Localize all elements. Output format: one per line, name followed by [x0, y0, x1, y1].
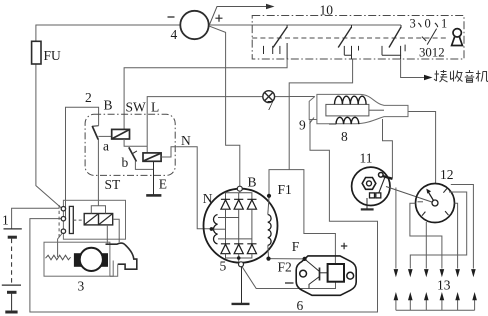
arrow to feed from ammeter plus — [210, 7, 269, 25]
wire ignition switch sw1 output to SW terminal of relay box — [124, 59, 287, 129]
alternator 5 body — [204, 189, 278, 263]
wire ammeter to ignition switch — [209, 24, 401, 26]
battery 1 — [2, 229, 22, 312]
spark plug bus and up arrows — [396, 298, 475, 310]
svg-text:9: 9 — [299, 118, 306, 133]
breaker arm — [383, 176, 393, 179]
wire L terminal to lamp 7 — [147, 97, 263, 153]
minus sign at regulator — [285, 282, 294, 284]
relay coil a — [112, 129, 130, 139]
svg-text:3: 3 — [410, 16, 416, 30]
field winding — [268, 215, 271, 246]
relay coil b — [143, 153, 161, 161]
ground at E — [146, 161, 161, 195]
coil primary winding — [335, 96, 367, 104]
switch contact group 2 — [338, 25, 358, 59]
switch b — [129, 147, 137, 161]
alternator bottom terminal — [239, 262, 244, 267]
svg-text:B: B — [248, 175, 257, 190]
wire relay coil b to N terminal — [161, 147, 176, 157]
wire F2 to regulator F — [269, 258, 305, 260]
svg-text:2: 2 — [85, 90, 92, 105]
svg-text:3: 3 — [78, 279, 85, 294]
wire ignition switch sw2 output to supply node — [289, 59, 352, 170]
接 — [434, 71, 439, 82]
key symbol in box 10 — [452, 29, 463, 46]
svg-text:11: 11 — [360, 151, 373, 166]
starter drive housing bell — [106, 243, 137, 269]
diodes bottom row — [221, 244, 257, 254]
wire fuse down to starter terminal 1 — [36, 64, 61, 208]
svg-text:0: 0 — [425, 16, 431, 30]
distributor center — [432, 200, 438, 206]
wire alternator minus to regulator minus — [242, 266, 336, 289]
wire node to regulator plus and F1 — [269, 170, 335, 264]
ignition switch box 10 — [252, 16, 464, 60]
transistor in regulator — [306, 260, 328, 289]
coil secondary winding — [336, 117, 359, 124]
svg-text:6: 6 — [297, 298, 304, 313]
wire supply node to resistor 9 — [289, 96, 315, 98]
label 9 pointer — [310, 118, 315, 124]
switch contact group 1 — [264, 25, 288, 59]
svg-text:7: 7 — [267, 98, 274, 113]
spark plug wire arrows 13 down — [394, 269, 476, 277]
svg-text:B: B — [104, 97, 113, 112]
stator taps — [212, 218, 252, 239]
svg-text:N: N — [203, 191, 213, 206]
bell housing lower edge — [110, 264, 118, 276]
regulator mounting hole left — [300, 270, 307, 277]
svg-text:FU: FU — [44, 48, 62, 63]
regulator resistor box — [328, 264, 344, 282]
svg-text:12: 12 — [440, 167, 454, 182]
wire battery plus to starter terminal 1 — [12, 208, 60, 229]
wire N terminal of relay box to alternator neutral — [176, 147, 211, 229]
diodes top row — [221, 199, 257, 209]
switch contact group 3 — [382, 25, 405, 59]
wire solenoid bottom to motor brush — [106, 225, 108, 243]
wires distributor to plug leads — [396, 185, 474, 269]
breaker pivot — [379, 173, 384, 178]
svg-text:ST: ST — [105, 177, 122, 192]
ideograph commas in 3 0 1 — [418, 23, 437, 27]
svg-text:F1: F1 — [278, 182, 292, 197]
音 — [465, 70, 474, 77]
wire sw3 output to radio arrow — [401, 59, 426, 78]
svg-text:F2: F2 — [278, 260, 292, 275]
F junction dot — [303, 257, 307, 261]
rectifier top bus — [226, 191, 252, 199]
svg-text:10: 10 — [320, 3, 334, 18]
wire starter terminal 2 to bottom bus — [30, 120, 378, 313]
svg-text:N: N — [181, 133, 191, 148]
switch a — [92, 126, 98, 140]
field winding leads — [268, 198, 269, 258]
wire solenoid to motor — [113, 219, 120, 242]
starter terminal posts — [61, 207, 65, 234]
wire top bus from fuse to ammeter — [36, 25, 181, 41]
wire terminal 3 to field winding — [58, 234, 62, 258]
lamp 7 — [263, 91, 275, 103]
distributor 12 body — [416, 184, 455, 223]
svg-text:8: 8 — [341, 129, 348, 144]
svg-text:L: L — [151, 100, 159, 115]
solenoid mechanical link dashes — [58, 205, 60, 239]
coil internal leads — [329, 110, 384, 124]
svg-text:13: 13 — [437, 278, 451, 293]
alternator B terminal — [237, 186, 242, 191]
svg-text:5: 5 — [220, 259, 227, 274]
fuse FU — [32, 41, 41, 64]
breaker ground — [361, 198, 374, 209]
wire B terminal of relay box to starter terminal 2 — [66, 107, 99, 218]
wire coil 8 to breaker 11 — [383, 119, 393, 178]
F2 junction dot — [266, 257, 270, 261]
solenoid winding box — [84, 214, 113, 225]
svg-text:E: E — [159, 177, 167, 192]
distributor dash mark — [418, 201, 424, 203]
resistor 9 bracket — [309, 97, 317, 120]
text radio receiver (接收音机) — [434, 70, 488, 82]
phase rails — [226, 209, 252, 244]
wire switch b bottom to E stem — [135, 161, 153, 169]
alternator ground — [232, 267, 250, 304]
regulator 6 housing — [296, 256, 356, 295]
svg-text:1: 1 — [441, 16, 447, 30]
svg-text:a: a — [103, 139, 109, 154]
收 — [451, 71, 454, 82]
wire ammeter plus drop to alternator B — [210, 26, 240, 186]
breaker cam center — [367, 181, 372, 186]
starter 3 solenoid enclosure — [63, 200, 125, 239]
wire relay coil a bottom to L node — [124, 139, 147, 146]
svg-text:1: 1 — [2, 213, 9, 228]
starter motor housing — [44, 242, 110, 276]
wire high tension coil to distributor — [408, 112, 436, 184]
starter inner step — [110, 261, 113, 277]
solenoid contact bar — [69, 206, 73, 233]
wire ST down to solenoid — [97, 139, 99, 206]
starter motor brushes — [74, 253, 81, 267]
neutral dot N — [210, 227, 214, 231]
wire lamp 7 to supply node — [275, 96, 290, 98]
breaker points 11 body — [352, 167, 390, 205]
ammeter 4 — [180, 11, 208, 39]
plus sign at ammeter — [215, 15, 222, 22]
rectifier bottom bus — [226, 254, 252, 262]
link breaker to distributor — [386, 187, 432, 203]
svg-text:4: 4 — [171, 27, 178, 42]
dashed position line in box 10 — [252, 37, 447, 39]
coil primary frame — [326, 104, 369, 116]
svg-text:F: F — [292, 239, 300, 254]
distributor rim ticks — [422, 189, 449, 216]
breaker cam hexagon — [362, 178, 376, 190]
plus sign at regulator — [341, 243, 347, 249]
rotary switch mark in box 10 — [422, 29, 437, 45]
机 — [476, 71, 481, 82]
svg-text:SW: SW — [126, 100, 147, 115]
junction dot bottom bus — [237, 256, 241, 260]
ignition coil 8 housing — [317, 94, 408, 123]
stator winding — [213, 215, 217, 244]
breaker fixed contacts — [370, 193, 381, 198]
wire switch a to relay coil a — [98, 135, 111, 137]
link bar to plunger — [73, 219, 84, 221]
solenoid feed loop from ST — [91, 206, 105, 214]
distributor rotor arrow — [428, 192, 434, 201]
minus sign at ammeter — [168, 16, 175, 18]
starter motor armature — [80, 248, 103, 271]
svg-text:b: b — [122, 155, 129, 170]
breaker arm linkage — [379, 178, 385, 193]
regulator mounting hole right — [347, 272, 354, 279]
F1 junction dot — [267, 194, 271, 198]
svg-text:3012: 3012 — [419, 46, 445, 60]
relay box 2 boundary — [85, 114, 175, 175]
field winding zigzag — [46, 255, 71, 260]
